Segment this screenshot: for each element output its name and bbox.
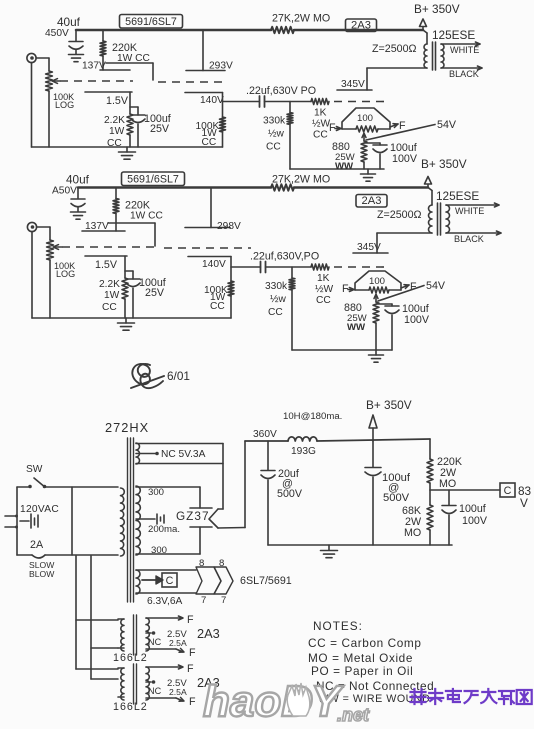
svg-text:166L2: 166L2 — [113, 652, 148, 664]
svg-text:140V: 140V — [200, 95, 224, 106]
svg-text:WW: WW — [347, 322, 366, 333]
svg-text:PO = Paper in Oil: PO = Paper in Oil — [311, 664, 413, 678]
svg-text:LOG: LOG — [55, 100, 74, 110]
svg-text:500V: 500V — [277, 488, 303, 500]
svg-text:F: F — [187, 614, 194, 626]
svg-text:½W: ½W — [312, 119, 330, 130]
svg-text:1W: 1W — [109, 126, 125, 137]
svg-text:5691/6SL7: 5691/6SL7 — [127, 174, 179, 186]
svg-text:300: 300 — [151, 545, 167, 556]
svg-text:300: 300 — [148, 487, 164, 498]
svg-text:1K: 1K — [317, 273, 330, 284]
svg-text:WW: WW — [335, 161, 354, 172]
svg-text:CC: CC — [210, 301, 225, 312]
svg-text:MO = Metal Oxide: MO = Metal Oxide — [308, 651, 413, 665]
svg-text:Z=2500Ω: Z=2500Ω — [377, 209, 422, 221]
svg-text:100V: 100V — [462, 515, 488, 527]
svg-text:6.3V,6A: 6.3V,6A — [147, 596, 183, 607]
svg-text:2.5A: 2.5A — [169, 638, 187, 648]
svg-text:25V: 25V — [150, 123, 170, 135]
svg-text:120VAC: 120VAC — [20, 504, 59, 515]
svg-text:40uf: 40uf — [66, 173, 90, 187]
svg-text:360V: 360V — [253, 429, 277, 440]
svg-text:298V: 298V — [217, 221, 241, 232]
svg-text:125ESE: 125ESE — [432, 28, 475, 42]
svg-text:100: 100 — [357, 113, 373, 124]
svg-text:7: 7 — [201, 595, 206, 606]
svg-text:10H@180ma.: 10H@180ma. — [283, 411, 342, 422]
svg-text:2A3: 2A3 — [197, 626, 220, 641]
svg-text:C: C — [504, 485, 512, 497]
svg-text:B+ 350V: B+ 350V — [421, 157, 467, 171]
svg-text:V: V — [520, 496, 528, 510]
svg-text:2.5A: 2.5A — [169, 687, 187, 697]
svg-text:Z=2500Ω: Z=2500Ω — [372, 43, 417, 55]
svg-text:1W: 1W — [104, 290, 120, 301]
svg-text:1K: 1K — [314, 108, 327, 119]
svg-text:54V: 54V — [437, 119, 457, 131]
svg-text:330k: 330k — [265, 281, 288, 292]
svg-text:F: F — [189, 647, 196, 659]
svg-text:F: F — [399, 120, 406, 132]
svg-text:WHITE: WHITE — [450, 45, 479, 55]
svg-text:8: 8 — [219, 558, 224, 569]
svg-text:NC: NC — [148, 686, 162, 696]
svg-text:125ESE: 125ESE — [436, 189, 479, 203]
svg-text:345V: 345V — [341, 79, 365, 90]
svg-text:500V: 500V — [383, 492, 410, 504]
svg-text:100: 100 — [369, 276, 385, 287]
svg-text:2.2K: 2.2K — [99, 279, 120, 290]
svg-text:100V: 100V — [392, 153, 418, 165]
svg-text:25V: 25V — [145, 287, 165, 299]
svg-text:F: F — [187, 663, 194, 675]
svg-text:A50V: A50V — [52, 186, 77, 197]
svg-text:.net: .net — [337, 705, 370, 724]
svg-text:2A3: 2A3 — [362, 195, 382, 207]
svg-text:NOTES:: NOTES: — [313, 619, 363, 633]
svg-text:7: 7 — [221, 595, 226, 606]
svg-text:BLACK: BLACK — [454, 234, 484, 244]
svg-text:2.2K: 2.2K — [104, 115, 125, 126]
svg-text:BLOW: BLOW — [29, 569, 55, 579]
svg-text:2A3: 2A3 — [351, 20, 371, 32]
svg-text:.22uf,630V,PO: .22uf,630V,PO — [250, 251, 319, 263]
svg-text:½w: ½w — [270, 294, 286, 305]
svg-text:LOG: LOG — [56, 269, 75, 279]
svg-text:200ma.: 200ma. — [148, 524, 180, 535]
svg-text:272HX: 272HX — [105, 420, 149, 435]
svg-text:193G: 193G — [291, 446, 316, 457]
svg-text:½w: ½w — [268, 129, 284, 140]
svg-text:CC: CC — [266, 142, 281, 153]
svg-text:BLACK: BLACK — [449, 69, 479, 79]
svg-text:1.5V: 1.5V — [106, 95, 129, 107]
svg-text:27K,2W MO: 27K,2W MO — [272, 13, 330, 25]
svg-text:CC: CC — [316, 295, 331, 306]
svg-text:CC: CC — [268, 307, 283, 318]
svg-text:NC 5V.3A: NC 5V.3A — [161, 449, 206, 460]
svg-text:MO: MO — [439, 478, 456, 490]
svg-text:140V: 140V — [202, 259, 226, 270]
svg-text:CC = Carbon Comp: CC = Carbon Comp — [308, 636, 422, 650]
svg-text:2A: 2A — [30, 539, 44, 551]
svg-text:1.5V: 1.5V — [95, 259, 118, 271]
svg-text:450V: 450V — [45, 28, 69, 39]
svg-text:B+ 350V: B+ 350V — [366, 398, 412, 412]
svg-text:6SL7/5691: 6SL7/5691 — [240, 575, 292, 587]
svg-text:54V: 54V — [426, 280, 446, 292]
svg-text:40uf: 40uf — [57, 15, 81, 29]
svg-text:GZ37: GZ37 — [176, 509, 210, 523]
svg-text:CC: CC — [313, 130, 328, 141]
svg-text:8: 8 — [199, 558, 204, 569]
svg-text:6/01: 6/01 — [167, 369, 190, 383]
svg-text:27K,2W MO: 27K,2W MO — [272, 174, 330, 186]
svg-text:5691/6SL7: 5691/6SL7 — [125, 16, 177, 28]
svg-text:F: F — [189, 696, 196, 708]
svg-text:WHITE: WHITE — [455, 206, 484, 216]
svg-text:CC: CC — [102, 302, 117, 313]
svg-text:CC: CC — [202, 137, 217, 148]
svg-text:293V: 293V — [209, 61, 233, 72]
svg-text:1W CC: 1W CC — [130, 211, 163, 222]
svg-text:C: C — [166, 575, 174, 587]
svg-text:166L2: 166L2 — [113, 701, 148, 713]
svg-text:.22uf,630V PO: .22uf,630V PO — [246, 85, 316, 97]
svg-text:100uf: 100uf — [459, 503, 486, 515]
svg-text:F: F — [410, 281, 417, 293]
svg-text:B+ 350V: B+ 350V — [414, 2, 460, 16]
svg-text:330k: 330k — [263, 116, 286, 127]
svg-text:SW: SW — [26, 464, 43, 475]
svg-text:100V: 100V — [404, 314, 430, 326]
svg-text:½W: ½W — [315, 284, 333, 295]
svg-text:NC: NC — [148, 637, 162, 647]
svg-text:MO: MO — [404, 527, 421, 539]
